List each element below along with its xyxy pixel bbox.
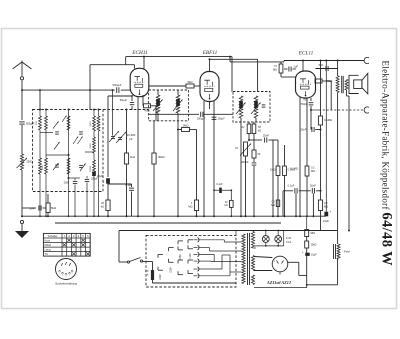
svg-text:1kΩ: 1kΩ: [130, 155, 135, 159]
svg-text:0.1A: 0.1A: [286, 241, 291, 244]
svg-text:7.5: 7.5: [273, 64, 277, 68]
svg-text:500μμF: 500μμF: [26, 122, 35, 125]
svg-text:0.1μF: 0.1μF: [288, 184, 295, 188]
svg-text:10μF: 10μF: [323, 219, 329, 223]
svg-text:95Ω: 95Ω: [311, 232, 316, 235]
svg-text:2500: 2500: [90, 121, 92, 127]
svg-text:7kΩ: 7kΩ: [303, 99, 308, 102]
svg-text:1: 1: [72, 273, 73, 275]
svg-text:Sockelschaltung: Sockelschaltung: [55, 282, 77, 286]
svg-text:0.1MΩ: 0.1MΩ: [290, 167, 298, 171]
svg-text:110V: 110V: [189, 253, 192, 259]
svg-text:TA: TA: [45, 252, 48, 256]
svg-text:+: +: [103, 181, 105, 185]
svg-text:200pF: 200pF: [240, 160, 249, 164]
svg-text:250Ω: 250Ω: [27, 161, 33, 164]
svg-text:MΩ: MΩ: [271, 204, 275, 207]
svg-text:25μF: 25μF: [97, 174, 104, 178]
svg-text:EBF11: EBF11: [202, 50, 218, 56]
svg-text:ECL11: ECL11: [298, 51, 314, 57]
svg-text:5nF: 5nF: [319, 63, 324, 67]
svg-text:1MΩ: 1MΩ: [183, 124, 189, 128]
svg-text:3500: 3500: [42, 165, 44, 171]
svg-text:ECH11: ECH11: [131, 50, 148, 56]
svg-text:1μF: 1μF: [294, 65, 299, 69]
svg-text:220V: 220V: [169, 267, 172, 273]
svg-text:240V: 240V: [159, 274, 162, 280]
svg-text:Schalter: Schalter: [48, 234, 58, 238]
svg-text:100μμF: 100μμF: [197, 117, 206, 121]
svg-text:15000: 15000: [90, 165, 92, 172]
svg-text:25nF: 25nF: [263, 134, 269, 138]
svg-text:0.1μF: 0.1μF: [125, 183, 132, 187]
svg-text:10μF: 10μF: [311, 254, 317, 257]
svg-text:30kΩ: 30kΩ: [158, 155, 165, 159]
svg-text:155V: 155V: [179, 254, 182, 260]
svg-text:1: 1: [59, 273, 60, 275]
svg-text:+: +: [302, 250, 304, 254]
svg-text:2500: 2500: [90, 143, 92, 149]
svg-text:0.1MΩ: 0.1MΩ: [324, 118, 332, 122]
svg-text:2x: 2x: [241, 125, 246, 129]
svg-text:3000: 3000: [64, 182, 70, 185]
svg-text:100μF: 100μF: [218, 118, 226, 121]
svg-text:kΩ: kΩ: [101, 205, 104, 209]
svg-text:6.3V: 6.3V: [286, 237, 291, 240]
svg-text:Lang: Lang: [45, 248, 51, 252]
svg-text:50nF: 50nF: [310, 184, 316, 188]
svg-text:Feld: Feld: [344, 250, 350, 254]
svg-text:10kΩ: 10kΩ: [311, 244, 317, 247]
svg-text:700pF: 700pF: [300, 103, 308, 106]
svg-text:+: +: [330, 210, 332, 214]
svg-text:AZ11od AZ12: AZ11od AZ12: [266, 280, 291, 285]
svg-text:1MΩ: 1MΩ: [270, 169, 275, 172]
svg-text:5nF: 5nF: [30, 206, 35, 210]
svg-text:1: 1: [69, 275, 70, 277]
svg-text:kΩ: kΩ: [225, 204, 228, 207]
svg-text:pF: pF: [129, 137, 133, 141]
svg-text:Kurz: Kurz: [45, 239, 51, 243]
svg-text:0.2: 0.2: [311, 166, 315, 170]
svg-text:1: 1: [66, 276, 67, 278]
svg-text:MΩ: MΩ: [188, 205, 192, 209]
svg-text:25nF: 25nF: [300, 128, 306, 132]
svg-text:Mittel: Mittel: [45, 243, 52, 247]
svg-text:MΩ: MΩ: [273, 68, 277, 72]
svg-text:1: 1: [62, 275, 63, 277]
svg-text:500μμF: 500μμF: [113, 83, 122, 87]
svg-text:0.1μF: 0.1μF: [216, 183, 223, 186]
svg-text:kΩ: kΩ: [258, 129, 261, 133]
svg-text:5kΩ: 5kΩ: [51, 206, 56, 210]
svg-text:50μμF: 50μμF: [120, 99, 128, 102]
svg-text:MΩ: MΩ: [311, 169, 315, 173]
svg-text:5kΩ: 5kΩ: [187, 80, 192, 84]
